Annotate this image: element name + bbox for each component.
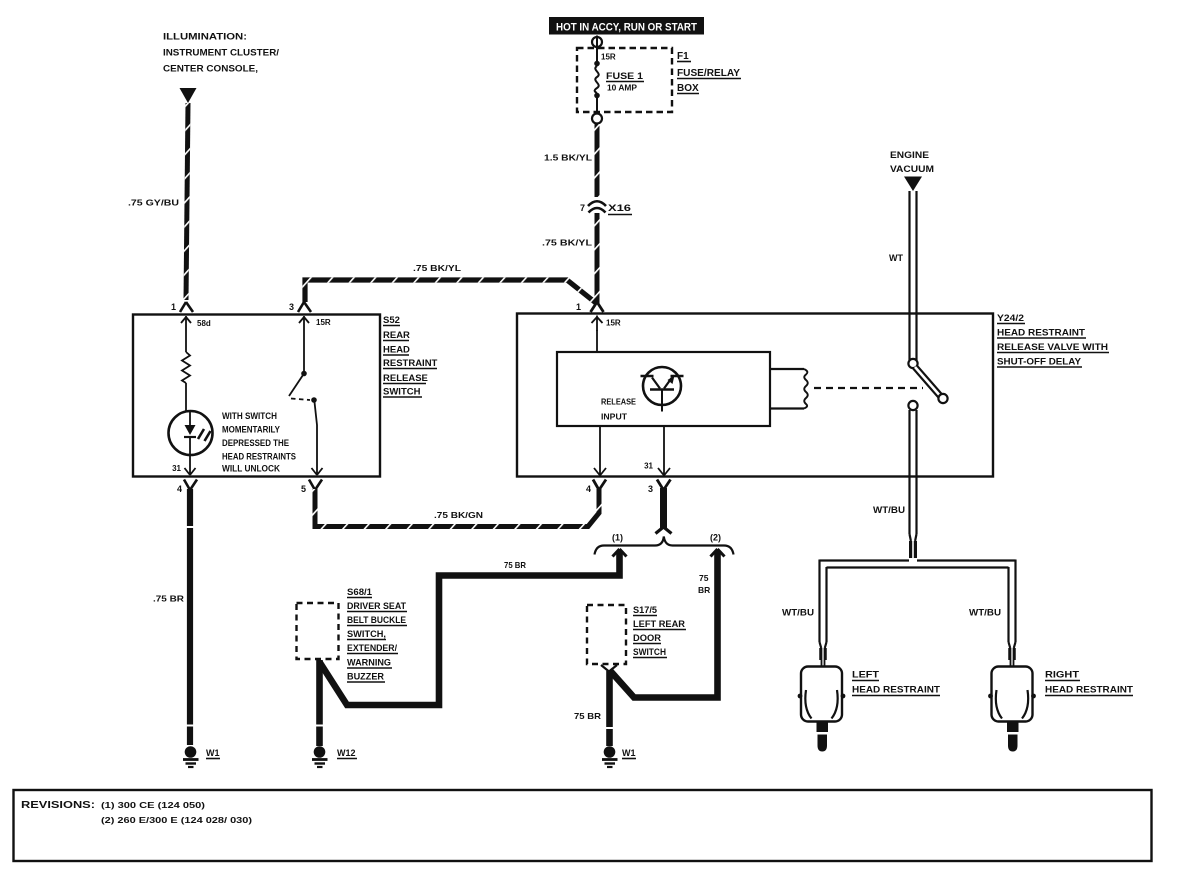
fuse internal wire bottom xyxy=(596,97,598,113)
wire electronics to pin 3 (arrow) xyxy=(658,426,670,476)
vacuum hose WT/BU (valve to tee) xyxy=(873,410,917,558)
junction dot xyxy=(594,93,600,99)
switch arrow to bottom edge xyxy=(312,455,323,475)
svg-text:DRIVER SEAT: DRIVER SEAT xyxy=(347,601,406,611)
svg-text:WT/BU: WT/BU xyxy=(969,608,1001,618)
svg-text:RELEASE VALVE WITH: RELEASE VALVE WITH xyxy=(997,342,1108,353)
svg-text:W1: W1 xyxy=(206,748,220,758)
pin 4 connector below S52 xyxy=(184,480,197,491)
svg-text:F1: F1 xyxy=(677,51,689,62)
svg-text:LEFT: LEFT xyxy=(852,670,879,681)
svg-text:HEAD RESTRAINT: HEAD RESTRAINT xyxy=(997,328,1085,339)
svg-text:RIGHT: RIGHT xyxy=(1045,670,1079,681)
branch arrow (2) xyxy=(711,549,725,557)
svg-text:WT/BU: WT/BU xyxy=(782,608,814,618)
svg-text:(2): (2) xyxy=(710,533,721,543)
svg-text:5: 5 xyxy=(301,484,306,494)
wire .75 BK/YL (pin 3 S52 to pin 1 Y24/2) xyxy=(305,263,596,303)
hose connector right xyxy=(1009,642,1016,648)
svg-text:S68/1: S68/1 xyxy=(347,587,372,597)
svg-text:W1: W1 xyxy=(622,748,636,758)
svg-text:(2) 260 E/300 E (124 028/ 030): (2) 260 E/300 E (124 028/ 030) xyxy=(101,815,252,825)
fuse/relay box F1 (dashed) xyxy=(577,48,672,112)
branch arrow (1) xyxy=(613,549,627,557)
svg-text:.75 GY/BU: .75 GY/BU xyxy=(128,198,179,208)
pin 4 connector below Y24/2 xyxy=(593,480,606,491)
wire 1.5 BK/YL (fuse to X16) xyxy=(544,124,597,197)
label LEFT HEAD RESTRAINT xyxy=(852,670,940,696)
wire electronics to pin 4 (arrow) xyxy=(594,426,606,476)
svg-text:RELEASE: RELEASE xyxy=(601,397,636,407)
svg-text:RELEASE: RELEASE xyxy=(383,373,428,384)
svg-text:HOT IN ACCY, RUN OR START: HOT IN ACCY, RUN OR START xyxy=(556,22,697,34)
switch S52 rear head restraint release switch (box) xyxy=(133,315,380,477)
svg-text:75: 75 xyxy=(699,573,709,583)
svg-text:1.5 BK/YL: 1.5 BK/YL xyxy=(544,153,592,163)
box bottom vee xyxy=(601,665,617,672)
svg-text:HEAD RESTRAINT: HEAD RESTRAINT xyxy=(852,685,940,696)
svg-text:1: 1 xyxy=(171,302,176,312)
component label F1 FUSE/RELAY BOX xyxy=(677,51,741,94)
pin 1 connector of Y24/2 xyxy=(591,302,604,312)
svg-text:INPUT: INPUT xyxy=(601,412,628,422)
svg-text:75 BR: 75 BR xyxy=(574,711,601,721)
svg-text:7: 7 xyxy=(580,203,585,213)
svg-text:S52: S52 xyxy=(383,315,400,326)
solenoid coil xyxy=(770,369,808,409)
svg-text:1: 1 xyxy=(576,302,581,312)
arrow from engine vacuum xyxy=(904,177,922,192)
switch S17/5 left rear door switch (dashed box) xyxy=(587,605,626,664)
pin 1 connector of S52 xyxy=(171,302,193,312)
svg-text:31: 31 xyxy=(644,462,653,471)
power label HOT IN ACCY RUN OR START xyxy=(549,17,704,35)
component label S52 REAR HEAD RESTRAINT RELEASE SWITCH xyxy=(383,315,438,398)
hose connector left xyxy=(820,642,827,648)
svg-text:3: 3 xyxy=(648,484,653,494)
svg-text:3: 3 xyxy=(289,302,294,312)
pin 1 arrow inside Y24/2 xyxy=(592,316,603,332)
ground W1 (left) xyxy=(183,746,220,767)
wire to resistor xyxy=(185,331,187,352)
wire .75 GY/BU xyxy=(128,103,188,300)
transistor (release driver) xyxy=(641,367,684,412)
lamp (switch illumination) xyxy=(169,411,213,455)
valve unit Y24/2 head restraint release valve (box) xyxy=(517,314,993,477)
svg-text:SWITCH,: SWITCH, xyxy=(347,629,386,639)
svg-text:WITH SWITCH: WITH SWITCH xyxy=(222,411,277,421)
component label Y24/2 HEAD RESTRAINT RELEASE VALVE WITH SHUT-OFF DELAY xyxy=(997,313,1109,368)
pin 3 connector of S52 xyxy=(298,302,311,312)
svg-text:REAR: REAR xyxy=(383,330,410,341)
junction dot xyxy=(594,61,600,67)
fuse element FUSE 1 10 AMP (wavy) xyxy=(595,66,599,93)
fuse F1 internal wire top xyxy=(596,36,598,62)
svg-text:.75 BK/YL: .75 BK/YL xyxy=(413,263,461,273)
svg-text:FUSE/RELAY: FUSE/RELAY xyxy=(677,68,740,79)
revisions box xyxy=(14,790,1152,861)
svg-text:HEAD: HEAD xyxy=(383,345,410,356)
wire .75 BK/GN (pin 5 S52 to pin 4 Y24/2) xyxy=(315,489,599,527)
svg-text:75 BR: 75 BR xyxy=(504,560,526,570)
node: fuse box bottom terminal xyxy=(592,114,602,124)
svg-text:BR: BR xyxy=(698,585,710,595)
component label S17/5 LEFT REAR DOOR SWITCH xyxy=(633,605,686,658)
svg-text:VACUUM: VACUUM xyxy=(890,164,934,175)
svg-text:4: 4 xyxy=(177,484,182,494)
wire pin1 to electronics box xyxy=(596,330,598,352)
actuator: left head restraint xyxy=(798,667,846,752)
svg-text:WILL UNLOCK: WILL UNLOCK xyxy=(222,464,280,474)
svg-text:RESTRAINT: RESTRAINT xyxy=(383,358,438,369)
svg-text:MOMENTARILY: MOMENTARILY xyxy=(222,425,280,435)
pin 31 arrow to bottom edge xyxy=(185,455,196,475)
svg-text:REVISIONS:: REVISIONS: xyxy=(21,800,95,811)
svg-text:FUSE 1: FUSE 1 xyxy=(606,71,644,82)
wire 75 BR branch 1 (splice to S68/1) xyxy=(320,551,620,705)
svg-text:INSTRUMENT CLUSTER/: INSTRUMENT CLUSTER/ xyxy=(163,48,279,59)
svg-text:58d: 58d xyxy=(197,319,211,328)
svg-text:SWITCH: SWITCH xyxy=(383,387,421,398)
svg-text:15R: 15R xyxy=(601,53,616,62)
wire S68/1 to ground W12 xyxy=(314,660,325,746)
vacuum hose WT (engine vacuum to valve) xyxy=(889,191,917,360)
svg-text:S17/5: S17/5 xyxy=(633,605,657,615)
pin 3 arrow inside S52 xyxy=(299,316,309,331)
svg-text:4: 4 xyxy=(586,484,591,494)
pin 1 arrow inside S52 xyxy=(181,316,191,331)
svg-text:.75 BK/YL: .75 BK/YL xyxy=(542,238,592,248)
electronics module (inner box) xyxy=(557,352,770,426)
svg-text:BUZZER: BUZZER xyxy=(347,672,385,682)
svg-text:BELT BUCKLE: BELT BUCKLE xyxy=(347,615,406,625)
svg-text:LEFT REAR: LEFT REAR xyxy=(633,619,686,629)
valve lever with pivots xyxy=(908,359,947,410)
svg-text:W12: W12 xyxy=(337,748,356,758)
wire 75 BR branch 2 (splice to S17/5) xyxy=(610,551,718,698)
arrow to illumination circuit xyxy=(180,88,197,103)
component label S68/1 DRIVER SEAT BELT BUCKLE SWITCH EXTENDER/ WARNING BUZZER xyxy=(347,587,407,682)
svg-text:EXTENDER/: EXTENDER/ xyxy=(347,643,397,653)
ground W12 xyxy=(312,746,357,767)
svg-text:15R: 15R xyxy=(606,319,621,328)
svg-text:HEAD RESTRAINT: HEAD RESTRAINT xyxy=(1045,685,1133,696)
pin 5 connector below S52 xyxy=(309,480,322,491)
wire resistor to lamp xyxy=(185,383,187,411)
resistor (illumination dimmer) xyxy=(182,352,190,383)
node: fuse box top terminal xyxy=(592,37,602,47)
svg-text:HEAD RESTRAINTS: HEAD RESTRAINTS xyxy=(222,452,296,462)
wire .75 BR (pin 4 S52 to ground W1) xyxy=(153,489,195,745)
svg-text:DOOR: DOOR xyxy=(633,633,662,643)
svg-text:Y24/2: Y24/2 xyxy=(997,313,1024,324)
wire 75 BR (S17/5 to ground W1) xyxy=(574,671,615,746)
svg-text:.75 BK/GN: .75 BK/GN xyxy=(434,510,483,520)
svg-text:WARNING: WARNING xyxy=(347,658,391,668)
switch contact (momentary) xyxy=(289,331,317,455)
svg-text:BOX: BOX xyxy=(677,83,699,94)
svg-text:ILLUMINATION:: ILLUMINATION: xyxy=(163,32,247,43)
svg-text:15R: 15R xyxy=(316,318,331,327)
svg-text:SWITCH: SWITCH xyxy=(633,647,666,657)
svg-text:.75 BR: .75 BR xyxy=(153,594,184,604)
ground W1 (right) xyxy=(602,746,636,767)
actuator: right head restraint xyxy=(988,667,1036,752)
label RIGHT HEAD RESTRAINT xyxy=(1045,670,1133,696)
svg-text:(1) 300 CE (124 050): (1) 300 CE (124 050) xyxy=(101,800,205,810)
mechanical link (dashed) xyxy=(814,387,923,389)
vacuum tee to left/right restraints xyxy=(820,560,1016,643)
svg-text:SHUT-OFF DELAY: SHUT-OFF DELAY xyxy=(997,357,1082,368)
svg-text:31: 31 xyxy=(172,464,181,473)
wire .75 BK/YL (X16 down to node) xyxy=(542,213,597,304)
svg-text:CENTER CONSOLE,: CENTER CONSOLE, xyxy=(163,64,258,75)
svg-text:ENGINE: ENGINE xyxy=(890,150,929,161)
node label ILLUMINATION INSTRUMENT CLUSTER / CENTER CONSOLE xyxy=(163,32,279,75)
pin 3 connector below Y24/2 xyxy=(657,480,671,491)
note text inside S52 xyxy=(222,411,296,474)
svg-text:WT/BU: WT/BU xyxy=(873,505,905,515)
switch S68/1 driver seat belt buckle switch (dashed box) xyxy=(297,603,339,659)
svg-text:DEPRESSED THE: DEPRESSED THE xyxy=(222,438,289,448)
svg-text:10 AMP: 10 AMP xyxy=(607,84,638,93)
svg-text:WT: WT xyxy=(889,253,903,263)
wire 75 BR (pin 3 Y24/2 to splice) xyxy=(656,488,672,534)
connector X16 pin 7 xyxy=(580,201,632,214)
svg-text:X16: X16 xyxy=(608,203,631,213)
svg-text:(1): (1) xyxy=(612,533,623,543)
splice brace (1)/(2) xyxy=(595,533,734,555)
